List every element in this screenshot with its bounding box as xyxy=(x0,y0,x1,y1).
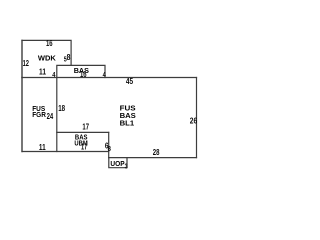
svg-text:12: 12 xyxy=(23,59,30,68)
svg-text:28: 28 xyxy=(153,148,160,157)
wire right edge xyxy=(196,78,198,158)
wire UBM right step xyxy=(108,132,110,157)
svg-text:11: 11 xyxy=(39,143,46,152)
svg-text:4: 4 xyxy=(103,72,106,79)
svg-text:4: 4 xyxy=(52,72,55,79)
svg-text:16: 16 xyxy=(80,70,87,79)
svg-text:3: 3 xyxy=(125,164,128,171)
svg-text:8: 8 xyxy=(108,146,111,153)
svg-text:UOP: UOP xyxy=(110,161,125,168)
wire interior vertical xyxy=(56,78,58,152)
wire left edge xyxy=(21,78,23,152)
wire UOP box xyxy=(109,158,127,168)
wire bottom right xyxy=(109,157,197,159)
svg-text:26: 26 xyxy=(190,117,198,126)
wire UBM top xyxy=(57,131,109,133)
svg-text:18: 18 xyxy=(58,104,65,113)
svg-text:WDK: WDK xyxy=(38,54,56,63)
svg-text:45: 45 xyxy=(126,77,134,86)
wire BAS strip top xyxy=(57,65,105,77)
svg-text:11: 11 xyxy=(39,68,46,77)
wire bottom left xyxy=(22,151,109,153)
wire house top xyxy=(22,77,197,79)
svg-text:BL1: BL1 xyxy=(120,118,135,127)
wire WDK outline xyxy=(21,40,23,77)
svg-text:16: 16 xyxy=(46,39,53,48)
svg-text:8: 8 xyxy=(67,53,71,62)
svg-text:17: 17 xyxy=(81,142,88,151)
svg-text:24: 24 xyxy=(47,112,54,121)
svg-text:FGR: FGR xyxy=(32,110,46,119)
svg-text:17: 17 xyxy=(82,123,89,132)
